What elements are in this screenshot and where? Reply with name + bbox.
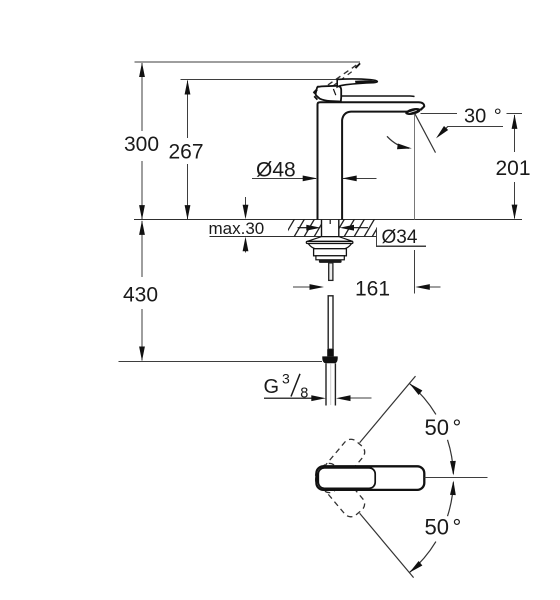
D48 leader underline with arrow [252,176,317,182]
faucet top back edge [342,95,415,98]
dimension 161 right arrow [415,284,440,290]
mounting cone washer [307,237,353,242]
spout tip edge [420,106,425,110]
D34 right arrow [340,225,369,231]
spout outlet axis line [414,114,416,220]
svg-text:50°: 50° [425,515,462,540]
30 degree pointer line [448,126,503,128]
threaded rod [329,263,333,281]
max.30 top arrow [243,197,249,219]
svg-text:267: 267 [168,141,203,164]
dimension 430 bottom line [119,361,323,363]
max.30 bottom arrow [243,237,249,253]
plan view handle grip inner [318,468,375,488]
30 degree pointer arrow [434,126,448,140]
dimension 267 extension line top [181,79,352,81]
shank center tick [329,220,331,224]
30 degree arc arrow [387,136,412,151]
D34 label bracket [377,227,427,246]
svg-text:G: G [264,376,280,398]
svg-text:8: 8 [300,385,308,401]
shank left wall [321,220,323,237]
counter hatching right [334,219,383,237]
raised lever tip mark [355,63,361,69]
plan view dashed handle rotated up [312,436,368,496]
lever foot mark [313,89,318,95]
G38 leader underline with arrow [264,395,326,401]
dimension 300 arrows [139,63,145,220]
lever foot lower mark [314,96,317,99]
svg-text:30°: 30° [464,106,502,128]
dimension 161 extension line [413,250,415,294]
dimension 161 left arrow [293,284,324,290]
G38 right arrow [336,395,372,401]
plan view axis line [425,477,488,479]
dimension 201 vertical line [514,115,516,219]
lever blade [337,79,377,87]
plan view upper arc arrows [408,381,457,475]
dimension 267 arrows [185,80,191,220]
dimension 430 vertical line [141,221,143,361]
spout outlet aerator [405,107,422,117]
plan view handle outer [316,466,424,490]
supply pipe black segment [327,349,334,356]
dimension 300 extension line top [135,61,361,63]
30 degree pointer elbow [439,126,449,136]
hose connector nut [322,356,337,363]
mounting dome [308,244,351,249]
svg-text:300: 300 [124,133,159,156]
svg-text:161: 161 [355,277,390,300]
hose left wall [325,363,327,405]
mounting washer band [306,241,353,243]
dimension 201 arrows [512,114,518,219]
lever grip [316,86,342,102]
svg-text:50°: 50° [425,415,462,440]
shank right wall [338,220,340,237]
lever grip inner line [333,89,335,95]
counter top line [134,219,522,221]
30 degree leader line [421,112,458,114]
plan view upper 50 line [360,376,416,443]
plan view upper arc [409,383,453,473]
svg-text:430: 430 [123,284,158,307]
hose bore line [330,363,332,405]
mounting dark ring [319,260,342,263]
hose right wall [334,363,336,405]
D34 left arrow [298,225,321,231]
raised lever dashed lower edge [325,72,352,93]
30 degree slant line [415,114,436,153]
dimension 267 vertical line [187,81,189,220]
faucet body outline [318,102,425,219]
plan view lower arc arrows [408,480,457,574]
raised lever dashed top edge [320,64,358,90]
svg-text:max.30: max.30 [209,219,265,238]
lever blade dark sliver [355,80,377,83]
dimension 201 top tick [507,113,522,115]
dimension 300 vertical line [141,63,143,219]
supply pipe upper [328,296,333,350]
mounting nut [314,249,347,256]
label G 3/8 [264,371,309,402]
dimension 430 arrows [139,220,145,361]
counter bottom line [210,235,377,237]
svg-text:3: 3 [282,371,290,387]
counter hatching left [284,219,325,237]
plan view dashed handle rotated down [312,460,368,520]
svg-text:201: 201 [495,157,530,180]
plan view lower 50 line [360,513,414,577]
svg-text:Ø34: Ø34 [382,227,418,248]
D48 right arrow [342,176,376,182]
mounting washer 2 [316,256,344,260]
plan view lower arc [409,482,453,572]
